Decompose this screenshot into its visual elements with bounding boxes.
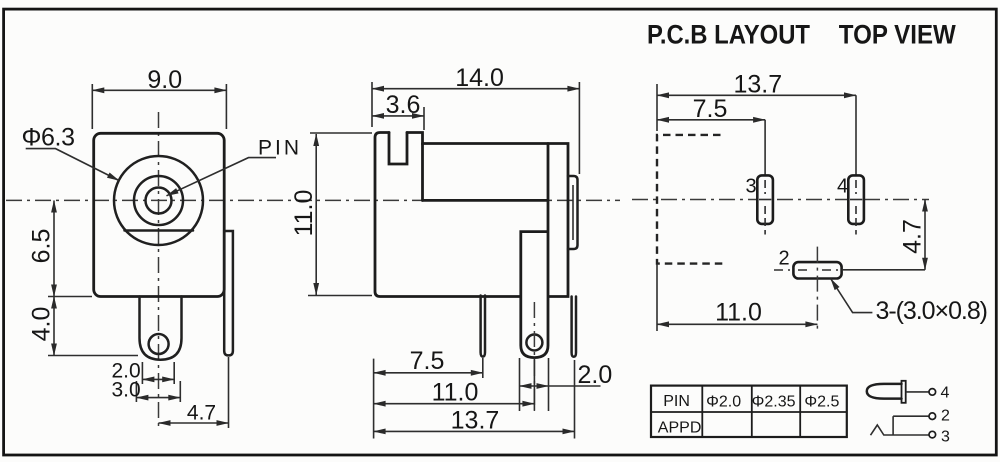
outer circle (6.3 dia) [114, 156, 203, 245]
vertical centerline front view [158, 112, 160, 428]
svg-text:3.6: 3.6 [386, 91, 421, 119]
dim 4.7 (pcb) [924, 200, 926, 270]
jack terminal circle 2 [929, 413, 936, 420]
table row divider [651, 411, 847, 413]
pcb horizontal centerline [632, 199, 929, 201]
jack pin 4 lead [906, 391, 929, 393]
svg-text:Φ2.5: Φ2.5 [804, 394, 839, 411]
side right pin [572, 297, 576, 357]
front view body [94, 133, 225, 296]
dim 11.0 (side height) extensions [308, 133, 372, 296]
pad2 to 4.7 connector [842, 269, 925, 271]
svg-text:PIN: PIN [663, 393, 690, 410]
side view mounting tab [521, 144, 548, 358]
horizontal centerline through front and side views [6, 199, 620, 201]
side view inner vertical (block edge) [421, 144, 424, 201]
svg-text:11.0: 11.0 [432, 379, 479, 407]
dim 3.6 extension [423, 107, 425, 130]
dim 3.0 (front tab) [136, 381, 180, 402]
side tab hole [526, 335, 542, 351]
svg-text:Φ2.0: Φ2.0 [706, 394, 741, 411]
dim 11.0 (pcb) [656, 264, 658, 331]
pad 4 centerline dashes [855, 180, 857, 235]
svg-text:2.0: 2.0 [578, 361, 613, 389]
svg-text:13.7: 13.7 [451, 407, 500, 435]
jack terminal circle 3 [929, 431, 936, 438]
jack symbol barrel [867, 384, 902, 399]
dim 7.5 (pcb) [764, 120, 766, 175]
chord line in outer circle [125, 229, 194, 232]
pad 2 centerline vertical [816, 247, 818, 331]
svg-text:14.0: 14.0 [455, 64, 504, 92]
dim 2.0 (front tab) [142, 362, 174, 384]
svg-text:9.0: 9.0 [147, 66, 182, 94]
front mounting tab with hole [140, 297, 182, 360]
front tab hole [149, 334, 169, 354]
side view outline [375, 133, 519, 297]
side view inner horizontal [423, 199, 549, 202]
pcb dashed body outline [657, 135, 724, 264]
svg-text:7.5: 7.5 [410, 347, 445, 375]
svg-text:3: 3 [941, 429, 950, 446]
side tab centerline [533, 302, 535, 411]
dim 2.0 (side tab) [520, 358, 549, 411]
dim 13.7 (side) [574, 360, 576, 439]
pad 2 [793, 262, 841, 278]
spec table outline [651, 386, 847, 437]
jack symbol crossbar [902, 381, 906, 403]
pad 3 [757, 175, 773, 224]
pad 3 centerline dashes [764, 180, 766, 235]
dim 13.7 (pcb) [656, 84, 658, 131]
svg-text:4.7: 4.7 [899, 219, 927, 254]
jack terminal circle 4 [929, 389, 936, 396]
jack switch vertical [892, 416, 894, 434]
dim 14.0 [372, 88, 579, 90]
dim 9.0 [92, 89, 226, 91]
svg-text:PIN: PIN [258, 137, 299, 160]
svg-text:Φ6.3: Φ6.3 [22, 124, 76, 152]
svg-text:APPD: APPD [658, 420, 702, 437]
dim 4.0 (left) [53, 297, 55, 356]
svg-text:11.0: 11.0 [290, 190, 318, 237]
svg-text:7.5: 7.5 [693, 95, 728, 123]
leader 3-(3.0x0.8) [831, 279, 873, 313]
jack pin 2 lead [893, 415, 929, 417]
svg-text:P.C.B LAYOUT: P.C.B LAYOUT [647, 20, 810, 50]
inner circle (pin) [146, 188, 172, 214]
dim 11.0 (side bottom) [533, 358, 535, 410]
side center pin [481, 296, 485, 357]
dim 7.5 (side) [374, 358, 483, 439]
svg-text:4: 4 [837, 176, 848, 198]
svg-text:3: 3 [746, 176, 757, 198]
dim 6.5 (left) [48, 297, 138, 356]
middle circle [134, 176, 183, 225]
svg-text:4: 4 [941, 385, 950, 402]
svg-text:11.0: 11.0 [715, 299, 762, 327]
svg-text:4.0: 4.0 [28, 307, 56, 342]
svg-text:13.7: 13.7 [733, 71, 782, 99]
front side pin (right) [224, 231, 233, 355]
svg-text:2: 2 [779, 248, 790, 270]
dim 4.7 (front) [228, 357, 230, 428]
side barrel tip [568, 176, 578, 249]
svg-text:TOP VIEW: TOP VIEW [839, 20, 956, 50]
svg-text:6.5: 6.5 [28, 229, 56, 264]
svg-text:Φ2.35: Φ2.35 [752, 394, 796, 411]
pad 4 [848, 175, 864, 224]
svg-text:2: 2 [941, 408, 950, 425]
side view top slot [389, 133, 407, 165]
jack pin 3 lead with spring [871, 425, 929, 435]
dim 14.0 extension lines [372, 82, 579, 174]
table column dividers [702, 386, 800, 437]
svg-text:4.7: 4.7 [187, 402, 216, 425]
pad 2 centerline horizontal dashes [774, 269, 838, 271]
svg-text:3-(3.0×0.8): 3-(3.0×0.8) [876, 297, 989, 325]
dim 9.0 extension lines [92, 84, 226, 129]
svg-text:3.0: 3.0 [112, 379, 141, 402]
